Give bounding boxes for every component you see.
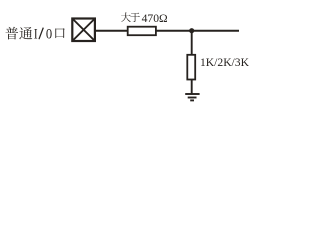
wire: pad to resistor R1 [96,30,129,32]
svg-text:I: I [34,27,38,43]
wire: resistor R1 to node [156,30,239,32]
svg-text:470Ω: 470Ω [142,12,168,25]
svg-text:0: 0 [46,27,52,43]
label: 大于470(ohm) [121,12,140,22]
label: 普通I/0口 (general-purpose I/O port) [5,27,64,40]
resistor R1 (series, >470 ohm) [128,27,156,36]
ground symbol [185,94,199,100]
svg-text:1K/2K/3K: 1K/2K/3K [200,56,250,69]
wire: node down to resistor R2 [191,31,193,55]
wire: resistor R2 to ground [191,80,193,94]
junction node [189,28,194,33]
resistor R2 (pull-down, 1K/2K/3K) [187,55,195,80]
I/O pad symbol (crossed box) [72,19,95,42]
